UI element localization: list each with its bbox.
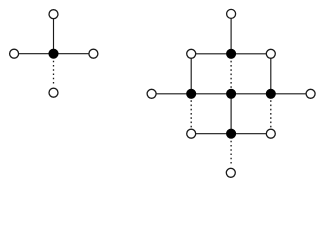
- node R NN (open): [227, 9, 236, 18]
- node R NW (open): [187, 49, 196, 58]
- node R C (filled): [226, 89, 236, 99]
- node R S (filled): [226, 129, 236, 139]
- node L right (open): [89, 49, 98, 58]
- node L center (filled): [48, 49, 58, 59]
- wire R N to NE (solid): [231, 53, 271, 55]
- node R N (filled): [226, 49, 236, 59]
- wire R NE to E (solid): [270, 54, 272, 94]
- wire L center to bottom (dotted): [53, 61, 55, 86]
- node R W (filled): [186, 89, 196, 99]
- wire R N to C (dotted): [230, 61, 232, 89]
- node R WW (open): [147, 89, 156, 98]
- wire R W to SW (dotted): [190, 100, 192, 128]
- wire L center to top (solid): [53, 14, 55, 54]
- node L top (open): [49, 10, 58, 19]
- wire L center to left (solid): [14, 53, 53, 55]
- wire R S to SE (solid): [231, 133, 271, 135]
- node R EE (open): [306, 89, 315, 98]
- wire R WW to W (solid): [152, 93, 192, 95]
- wire L center to right (solid): [54, 53, 94, 55]
- wire R W to C (solid): [191, 93, 231, 95]
- wire R SW to S (solid): [191, 133, 231, 135]
- wire R E to EE (solid): [271, 93, 311, 95]
- node L left (open): [10, 49, 19, 58]
- wire R S to SS (dotted): [230, 141, 232, 166]
- node L bottom (open): [49, 88, 58, 97]
- node R SS (open): [226, 168, 235, 177]
- wire R NW to W (solid): [190, 54, 192, 94]
- node R SE (open): [266, 129, 275, 138]
- node R NE (open): [266, 49, 275, 58]
- node R SW (open): [187, 129, 196, 138]
- wire R C to E (solid): [231, 93, 271, 95]
- wire R NW to N (solid): [191, 53, 231, 55]
- wire R E to SE (dotted): [270, 100, 272, 128]
- node R E (filled): [266, 89, 276, 99]
- wire R C to S (solid): [230, 94, 232, 134]
- wire R NN to N (solid): [230, 14, 232, 54]
